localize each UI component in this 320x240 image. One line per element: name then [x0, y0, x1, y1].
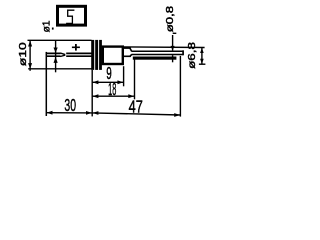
ø0,8 arrow down: [171, 46, 175, 51]
ø10 arrow down: [28, 63, 32, 69]
47 arrow right: [174, 113, 180, 117]
thick bar under stud: [133, 57, 177, 60]
collar top line: [123, 47, 131, 49]
ø6,8 dimension line: [201, 48, 203, 65]
extension line lead left end (for 30): [45, 52, 47, 116]
ø6,8 arrow up: [200, 48, 204, 53]
polarity mark +: [72, 46, 80, 48]
dimension line 18: [92, 95, 134, 97]
ø0,8 leader below stud: [172, 55, 174, 62]
ø10 bottom extension line: [28, 68, 91, 70]
extension line disc left (for 30/47): [91, 70, 93, 117]
ø10 arrow up: [28, 41, 32, 47]
collar bottom line: [123, 55, 131, 57]
9 arrow right: [117, 80, 123, 84]
right lead stud outline: [132, 51, 184, 54]
disc plate 3: [99, 40, 102, 70]
extension line neck (for 18): [134, 58, 136, 99]
ø0,8 leader line: [172, 35, 174, 50]
disc plate 2: [95, 40, 98, 70]
ø1 arrow up: [54, 57, 58, 63]
left lead chevron tip: [60, 53, 65, 56]
left lead wire to disc: [66, 53, 92, 56]
extension line body right (for 9): [123, 66, 125, 86]
dimension line 30: [46, 112, 92, 114]
ø10 dimension line: [29, 40, 31, 70]
ø6,8 arrow down: [200, 59, 204, 64]
svg-text:30: 30: [64, 97, 76, 116]
47 arrow left: [92, 111, 98, 115]
30 arrow left: [47, 111, 53, 115]
svg-text:47: 47: [129, 98, 143, 117]
dimension leader ø1 line: [55, 41, 57, 73]
svg-text:ø6,8: ø6,8: [185, 42, 197, 69]
18 arrow left: [92, 94, 98, 98]
extension line right lead end (for 47): [179, 56, 181, 117]
left lead wire outline: [46, 53, 60, 56]
value 5 (drawn stencil digit): [66, 10, 74, 23]
stray dash under ø0,8: [173, 32, 177, 34]
dimension line 47: [92, 113, 180, 115]
9 arrow left: [92, 80, 98, 84]
long top line (ø6,8 extension from body top right): [124, 46, 205, 49]
svg-text:ø10: ø10: [17, 42, 29, 66]
body rectangle: [103, 47, 123, 64]
disc plate 1: [91, 40, 94, 70]
ø6,8 bottom extension tick: [199, 63, 206, 65]
18 arrow right: [128, 94, 134, 98]
svg-text:18: 18: [108, 81, 116, 100]
svg-text:ø1: ø1: [42, 20, 53, 32]
30 arrow right: [86, 111, 92, 115]
neck step top: [130, 48, 132, 51]
ø10 top extension line: [28, 39, 92, 41]
boxed dimension 5 (frame): [58, 6, 86, 25]
dimension line 9: [92, 81, 123, 83]
ø1 arrow down: [54, 48, 58, 53]
neck step bottom: [130, 55, 132, 57]
right lead end cap: [182, 50, 184, 55]
serif mark of rotated 1: [52, 28, 54, 30]
svg-text:ø0,8: ø0,8: [165, 6, 176, 32]
